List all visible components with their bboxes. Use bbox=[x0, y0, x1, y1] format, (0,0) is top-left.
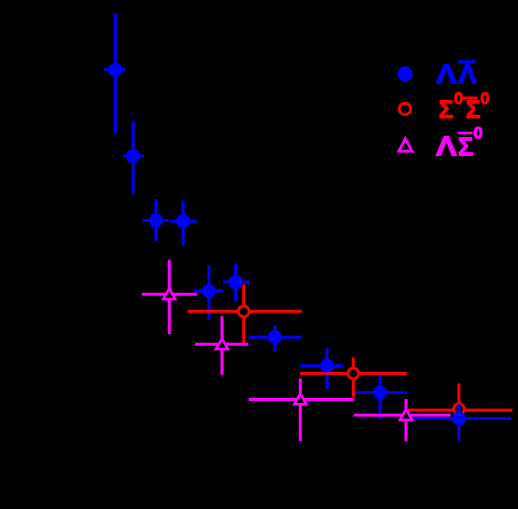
svg-text:Λ: Λ bbox=[436, 131, 457, 162]
svg-text:Σ: Σ bbox=[439, 96, 454, 124]
svg-text:Σ: Σ bbox=[458, 131, 474, 161]
svg-text:Σ: Σ bbox=[466, 96, 481, 124]
svg-text:Λ: Λ bbox=[436, 59, 457, 90]
svg-text:0: 0 bbox=[480, 89, 489, 108]
svg-text:0: 0 bbox=[454, 89, 463, 108]
svg-text:0: 0 bbox=[473, 124, 482, 143]
svg-text:Λ: Λ bbox=[458, 59, 477, 90]
